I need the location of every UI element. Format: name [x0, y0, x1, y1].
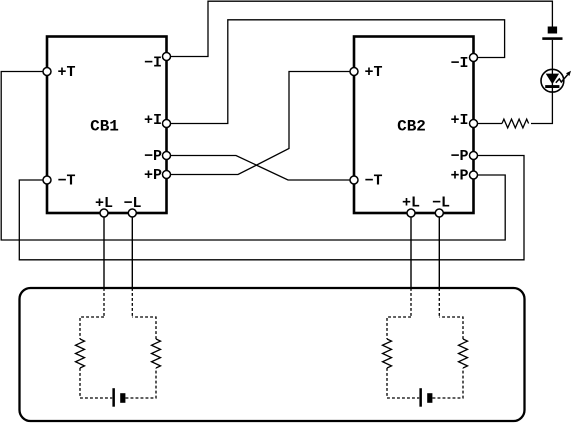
terminal CB1 +L: [100, 209, 108, 217]
wire CB1 -L dashed lead into load 1: [131, 288, 133, 317]
terminal CB2 +T: [350, 68, 358, 76]
svg-text:−T: −T: [58, 173, 76, 190]
wire LED D1 to resistor R1: [531, 92, 552, 124]
load enclosure box: [20, 288, 525, 421]
svg-text:−I: −I: [450, 55, 468, 72]
terminal CB2 +L: [407, 209, 415, 217]
svg-text:+I: +I: [144, 112, 162, 129]
load 1 dashed loop top-right segment: [132, 317, 156, 339]
svg-text:−P: −P: [144, 148, 162, 165]
wire CB2 -L dashed lead into load 2: [438, 288, 440, 317]
terminal CB2 -P: [470, 152, 478, 160]
resistor R2 (load 1 left): [76, 339, 85, 368]
resistor R4 (load 2 left): [383, 339, 392, 368]
load 2 dashed loop bottom-left segment: [387, 368, 419, 398]
terminal CB1 -T: [43, 176, 51, 184]
wire CB1 +P to CB2 +T (crossing): [167, 72, 355, 175]
load 1 dashed loop bottom-right segment: [126, 368, 157, 398]
wire CB1 -L down to load 1: [131, 213, 133, 288]
resistor R5 (load 2 right): [459, 339, 468, 368]
terminal CB2 -L: [435, 209, 443, 217]
wire CB1 +L down to load 1: [103, 213, 105, 288]
breaker CB1 body: [47, 37, 167, 214]
terminal CB1 -I: [163, 53, 171, 61]
terminal CB2 -I: [470, 54, 478, 62]
resistor R3 (load 1 right): [152, 339, 161, 368]
terminal CB1 -P: [163, 152, 171, 160]
wire CB2 -P to CB1 -T: [19, 156, 524, 260]
wire CB1 +L dashed lead into load 1: [103, 288, 105, 317]
load 2 dashed loop top-left segment: [387, 317, 411, 339]
wire CB1 -P to CB2 -T (crossing): [167, 156, 355, 181]
terminal CB1 +P: [163, 171, 171, 179]
terminal CB2 -T: [350, 176, 358, 184]
svg-text:+I: +I: [450, 112, 468, 129]
wire CB2 -L down to load 2: [438, 213, 440, 288]
battery B2 (load 1): [112, 388, 125, 407]
svg-text:−P: −P: [450, 148, 468, 165]
svg-text:+T: +T: [365, 64, 383, 81]
wire CB1 +I to CB2 -I: [167, 20, 505, 124]
svg-text:−I: −I: [144, 55, 162, 72]
terminal CB2 +P: [470, 171, 478, 179]
svg-text:+T: +T: [58, 64, 76, 81]
load 2 dashed loop top-right segment: [439, 317, 463, 339]
load 1 dashed loop top-left segment: [80, 317, 104, 339]
terminal CB2 +I: [470, 120, 478, 128]
load 1 dashed loop bottom-left segment: [80, 368, 112, 398]
svg-text:+P: +P: [450, 168, 468, 185]
svg-text:−L: −L: [432, 195, 450, 212]
breaker CB2 body: [354, 37, 474, 214]
resistor R1: [502, 119, 529, 128]
svg-text:−T: −T: [365, 173, 383, 190]
terminal CB1 -L: [128, 209, 136, 217]
terminal CB1 +T: [43, 68, 51, 76]
svg-text:CB1: CB1: [90, 118, 119, 136]
wire battery B1 to LED D1: [551, 40, 553, 70]
battery B3 (load 2): [419, 388, 432, 407]
terminal CB1 +I: [163, 120, 171, 128]
battery B1: [542, 27, 562, 40]
svg-text:CB2: CB2: [397, 118, 426, 136]
svg-text:−L: −L: [123, 195, 141, 212]
svg-text:+L: +L: [402, 195, 420, 212]
wire CB2 +P to CB1 +T: [1, 72, 505, 241]
wire CB2 +L dashed lead into load 2: [410, 288, 412, 317]
load 2 dashed loop bottom-right segment: [433, 368, 464, 398]
wire resistor R1 to CB2 +I: [474, 123, 503, 125]
svg-text:+P: +P: [144, 167, 162, 184]
LED D1: [541, 69, 571, 92]
wire CB1 -I to battery B1 (top rail): [167, 1, 553, 56]
svg-text:+L: +L: [95, 195, 113, 212]
wire CB2 +L down to load 2: [410, 213, 412, 288]
